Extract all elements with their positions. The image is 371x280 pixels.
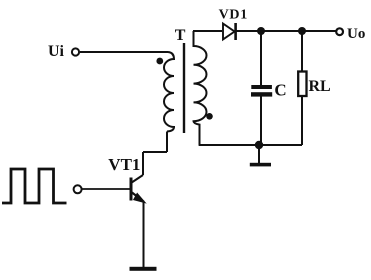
- resistor RL: [298, 72, 306, 97]
- wire ground stub: [258, 145, 260, 163]
- capacitor C: [251, 85, 272, 97]
- wire base: [82, 188, 130, 190]
- wire cap branch upper: [260, 31, 262, 85]
- svg-text:Ui: Ui: [48, 43, 65, 60]
- square wave input symbol: [2, 169, 67, 203]
- svg-text:C: C: [274, 80, 286, 99]
- svg-text:T: T: [175, 27, 186, 44]
- diode VD1: [223, 23, 236, 40]
- transformer T primary winding: [164, 52, 174, 132]
- wire collector vertical: [142, 152, 144, 175]
- wire cap branch lower: [260, 97, 262, 146]
- wire primary to collector horizontal: [143, 151, 167, 153]
- transistor VT1: [131, 175, 145, 203]
- svg-text:RL: RL: [309, 78, 331, 95]
- phase dot primary: [156, 58, 163, 65]
- transformer T secondary winding: [194, 31, 207, 145]
- transformer core: [183, 43, 185, 133]
- wire RL branch upper: [301, 31, 303, 72]
- svg-text:Uo: Uo: [347, 26, 365, 42]
- wire emitter vertical: [143, 202, 145, 268]
- svg-text:VD1: VD1: [219, 7, 248, 22]
- wire bottom rail: [199, 144, 302, 146]
- wire secondary top to diode: [193, 30, 222, 32]
- ground output: [250, 163, 271, 167]
- junction dot cap branch top: [257, 27, 265, 35]
- svg-text:VT1: VT1: [108, 155, 140, 174]
- wire RL branch lower: [301, 96, 303, 145]
- terminal base input: [74, 185, 82, 193]
- terminal Uo: [336, 28, 343, 35]
- junction dot RL branch top: [298, 27, 306, 35]
- junction dot bottom rail: [255, 141, 263, 149]
- wire primary bottom vertical: [166, 132, 168, 153]
- wire Ui to transformer primary: [80, 51, 168, 53]
- wire top rail diode to Uo: [236, 30, 336, 32]
- terminal Ui: [72, 48, 79, 55]
- ground emitter: [130, 267, 157, 271]
- phase dot secondary: [206, 113, 213, 120]
